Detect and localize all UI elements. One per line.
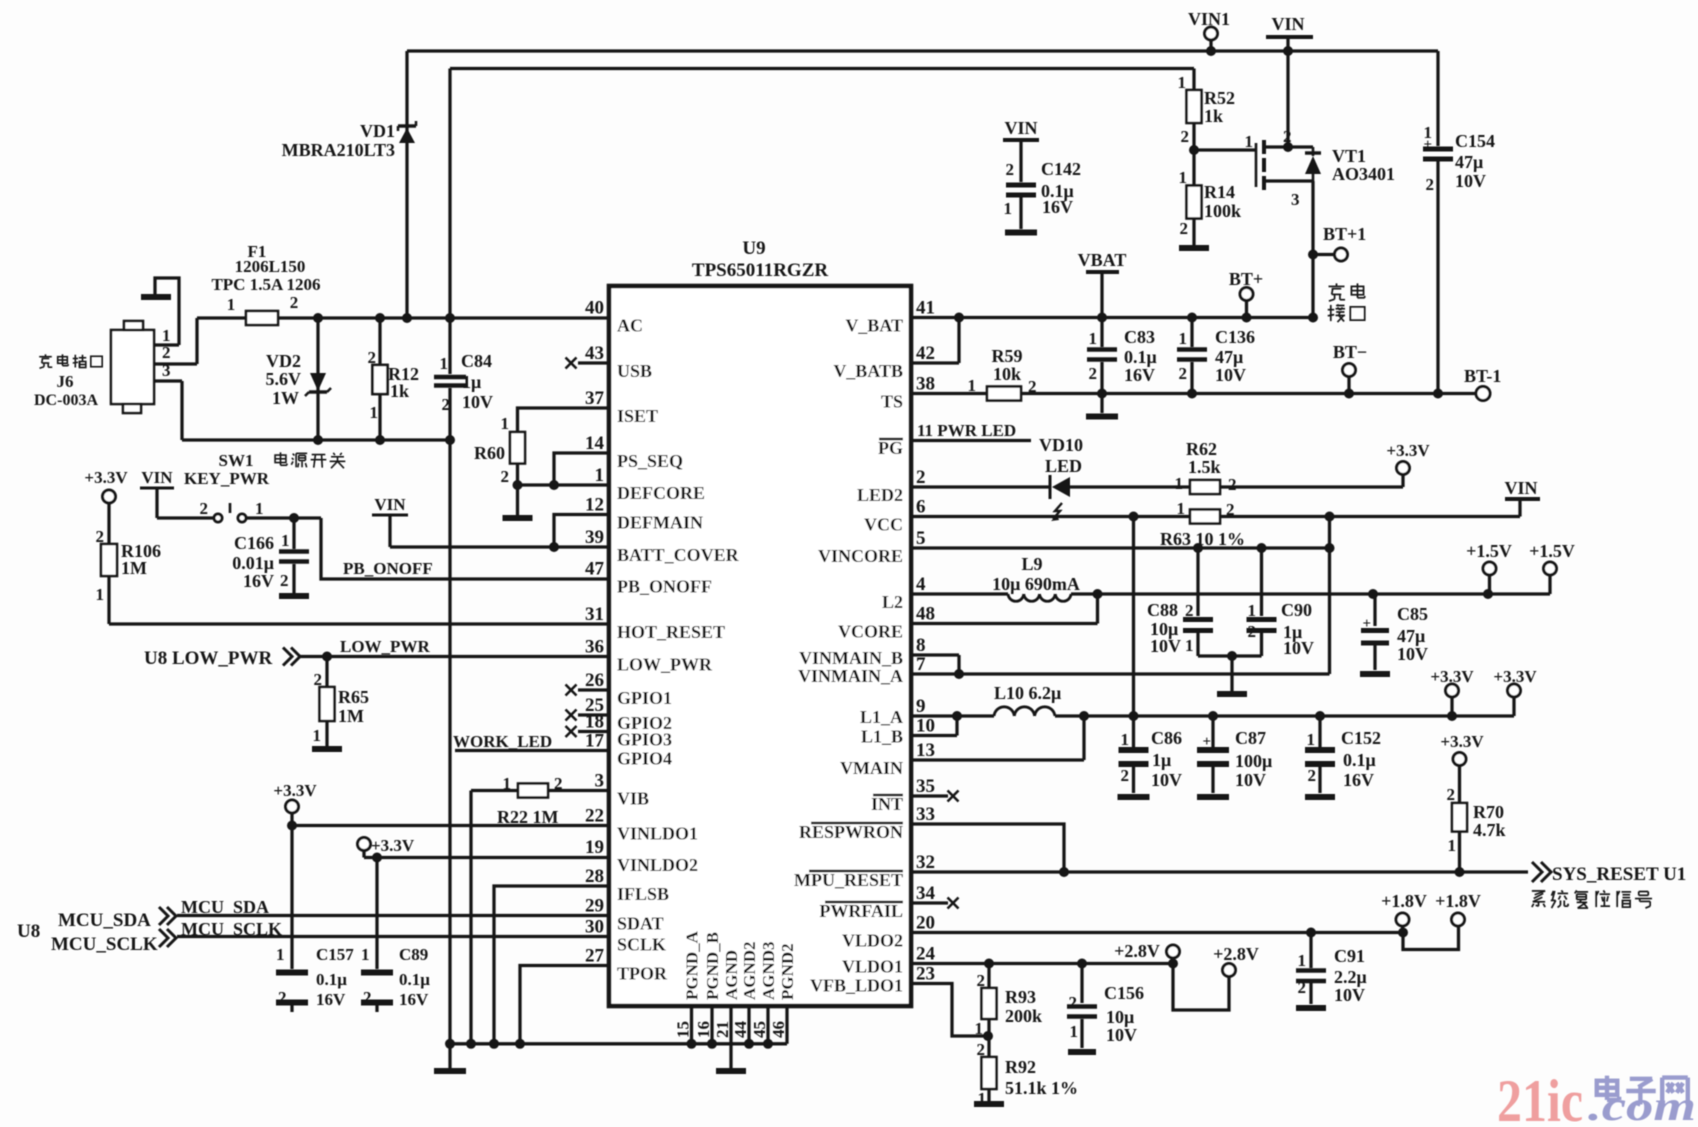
svg-text:20: 20 bbox=[916, 913, 935, 934]
svg-text:VIN: VIN bbox=[1271, 14, 1304, 34]
svg-text:1: 1 bbox=[1448, 836, 1457, 855]
svg-text:1: 1 bbox=[1178, 73, 1187, 92]
svg-text:10V: 10V bbox=[1215, 365, 1246, 385]
svg-text:1μ: 1μ bbox=[462, 372, 481, 392]
svg-text:1: 1 bbox=[595, 465, 605, 486]
svg-text:PB_ONOFF: PB_ONOFF bbox=[617, 577, 712, 597]
svg-text:16V: 16V bbox=[1042, 197, 1073, 217]
svg-text:1: 1 bbox=[501, 414, 510, 433]
svg-text:2: 2 bbox=[1069, 993, 1078, 1012]
svg-text:2: 2 bbox=[916, 467, 926, 488]
svg-text:1: 1 bbox=[1121, 730, 1130, 749]
svg-text:10V: 10V bbox=[1334, 985, 1365, 1005]
svg-text:SYS_RESET U1: SYS_RESET U1 bbox=[1552, 864, 1686, 885]
svg-text:2: 2 bbox=[200, 499, 209, 518]
svg-text:ISET: ISET bbox=[617, 406, 658, 426]
svg-text:4: 4 bbox=[916, 574, 926, 595]
svg-text:3: 3 bbox=[162, 361, 171, 380]
svg-text:1: 1 bbox=[1004, 199, 1013, 218]
svg-text:AGND3: AGND3 bbox=[759, 941, 778, 1000]
svg-text:1: 1 bbox=[255, 499, 264, 518]
svg-text:0.1μ: 0.1μ bbox=[1124, 347, 1157, 367]
svg-text:MCU_SDA: MCU_SDA bbox=[181, 897, 269, 917]
svg-text:LED2: LED2 bbox=[857, 485, 903, 505]
svg-text:C84: C84 bbox=[461, 351, 492, 371]
svg-text:BATT_COVER: BATT_COVER bbox=[617, 545, 740, 565]
svg-text:VINLDO2: VINLDO2 bbox=[617, 855, 698, 875]
svg-text:SW1: SW1 bbox=[219, 451, 254, 470]
svg-text:26: 26 bbox=[585, 670, 604, 691]
svg-text:.com: .com bbox=[1588, 1084, 1696, 1122]
svg-text:2: 2 bbox=[162, 343, 171, 362]
svg-text:2: 2 bbox=[280, 571, 289, 590]
svg-text:43: 43 bbox=[585, 343, 604, 364]
svg-text:HOT_RESET: HOT_RESET bbox=[617, 622, 725, 642]
svg-text:10V: 10V bbox=[1106, 1025, 1137, 1045]
svg-text:47μ: 47μ bbox=[1215, 347, 1243, 367]
svg-text:8: 8 bbox=[916, 635, 926, 656]
svg-text:21ic: 21ic bbox=[1497, 1068, 1583, 1122]
svg-text:2: 2 bbox=[1028, 377, 1037, 396]
svg-text:+3.3V: +3.3V bbox=[1430, 667, 1474, 686]
svg-text:PGND_A: PGND_A bbox=[683, 930, 702, 1000]
svg-text:AO3401: AO3401 bbox=[1332, 164, 1395, 184]
svg-text:47μ: 47μ bbox=[1455, 152, 1483, 172]
svg-text:R62: R62 bbox=[1186, 439, 1217, 459]
svg-text:44: 44 bbox=[731, 1021, 750, 1039]
svg-text:C157: C157 bbox=[316, 945, 354, 964]
svg-text:1: 1 bbox=[1089, 329, 1098, 348]
svg-text:1W: 1W bbox=[272, 388, 299, 408]
svg-text:MPU_RESET: MPU_RESET bbox=[794, 870, 903, 890]
svg-text:45: 45 bbox=[750, 1021, 769, 1038]
svg-text:6: 6 bbox=[916, 497, 926, 518]
svg-text:1: 1 bbox=[1179, 168, 1188, 187]
svg-text:U8: U8 bbox=[17, 921, 40, 942]
svg-text:VINMAIN_B: VINMAIN_B bbox=[799, 648, 903, 668]
svg-text:47: 47 bbox=[585, 559, 605, 580]
svg-text:+1.8V: +1.8V bbox=[1435, 891, 1481, 911]
svg-text:3: 3 bbox=[1291, 190, 1300, 209]
svg-text:2: 2 bbox=[290, 293, 299, 312]
svg-text:1: 1 bbox=[975, 1019, 984, 1038]
svg-text:DEFCORE: DEFCORE bbox=[617, 483, 705, 503]
svg-text:34: 34 bbox=[916, 883, 936, 904]
svg-text:L9: L9 bbox=[1021, 554, 1042, 574]
svg-text:C85: C85 bbox=[1397, 604, 1428, 624]
svg-text:1: 1 bbox=[1298, 951, 1307, 970]
svg-text:LOW_PWR: LOW_PWR bbox=[617, 655, 713, 675]
svg-text:WORK_LED: WORK_LED bbox=[453, 732, 552, 751]
svg-text:VT1: VT1 bbox=[1332, 146, 1366, 166]
svg-text:1: 1 bbox=[1245, 132, 1254, 151]
svg-text:L10 6.2μ: L10 6.2μ bbox=[994, 683, 1061, 703]
svg-text:SCLK: SCLK bbox=[617, 935, 666, 955]
svg-text:19: 19 bbox=[585, 837, 604, 858]
svg-text:1: 1 bbox=[370, 403, 379, 422]
svg-text:1: 1 bbox=[1248, 601, 1257, 620]
svg-text:PWRFAIL: PWRFAIL bbox=[819, 901, 903, 921]
svg-text:10V: 10V bbox=[1455, 171, 1486, 191]
svg-text:R59: R59 bbox=[992, 346, 1023, 366]
svg-text:2: 2 bbox=[1228, 475, 1237, 494]
svg-text:R60: R60 bbox=[474, 443, 505, 463]
svg-text:1: 1 bbox=[1179, 329, 1188, 348]
svg-text:16V: 16V bbox=[1124, 365, 1155, 385]
svg-text:1M: 1M bbox=[121, 558, 147, 578]
svg-text:33: 33 bbox=[916, 804, 935, 825]
svg-text:BT−: BT− bbox=[1333, 342, 1367, 362]
svg-text:30: 30 bbox=[585, 917, 604, 938]
svg-text:1: 1 bbox=[968, 376, 977, 395]
svg-text:16V: 16V bbox=[399, 990, 429, 1009]
svg-text:VBAT: VBAT bbox=[1078, 250, 1127, 270]
svg-text:U9: U9 bbox=[742, 238, 765, 259]
svg-text:GPIO3: GPIO3 bbox=[617, 730, 672, 750]
svg-text:2: 2 bbox=[368, 348, 377, 367]
svg-text:10V: 10V bbox=[1283, 638, 1314, 658]
svg-text:5: 5 bbox=[916, 528, 926, 549]
svg-text:+3.3V: +3.3V bbox=[1440, 732, 1484, 751]
svg-text:VCC: VCC bbox=[864, 515, 903, 535]
svg-text:29: 29 bbox=[585, 896, 604, 917]
svg-text:12: 12 bbox=[585, 495, 604, 516]
svg-text:21: 21 bbox=[713, 1021, 732, 1038]
svg-text:AC: AC bbox=[617, 316, 643, 336]
svg-text:BT+1: BT+1 bbox=[1323, 224, 1366, 244]
svg-text:IFLSB: IFLSB bbox=[617, 884, 669, 904]
svg-text:14: 14 bbox=[585, 433, 605, 454]
svg-text:2: 2 bbox=[1121, 766, 1130, 785]
svg-text:39: 39 bbox=[585, 527, 604, 548]
svg-text:10V: 10V bbox=[1151, 770, 1182, 790]
svg-text:36: 36 bbox=[585, 637, 604, 658]
svg-text:24: 24 bbox=[916, 944, 936, 965]
svg-text:RESPWRON: RESPWRON bbox=[799, 822, 903, 842]
svg-text:L1_B: L1_B bbox=[861, 727, 903, 747]
svg-text:2: 2 bbox=[1181, 127, 1190, 146]
svg-text:1: 1 bbox=[227, 295, 236, 314]
svg-text:1k: 1k bbox=[1204, 106, 1223, 126]
svg-text:1k: 1k bbox=[390, 381, 409, 401]
svg-text:USB: USB bbox=[617, 361, 652, 381]
svg-text:C88: C88 bbox=[1147, 600, 1178, 620]
svg-text:16V: 16V bbox=[316, 990, 346, 1009]
svg-text:GPIO1: GPIO1 bbox=[617, 688, 672, 708]
svg-text:16V: 16V bbox=[1343, 770, 1374, 790]
svg-text:R14: R14 bbox=[1204, 182, 1235, 202]
svg-text:41: 41 bbox=[916, 298, 935, 319]
svg-text:DEFMAIN: DEFMAIN bbox=[617, 513, 703, 533]
svg-text:0.01μ: 0.01μ bbox=[232, 553, 274, 573]
svg-text:2: 2 bbox=[1006, 160, 1015, 179]
svg-text:2: 2 bbox=[1248, 622, 1257, 641]
svg-text:VIN: VIN bbox=[374, 495, 406, 514]
svg-text:VCORE: VCORE bbox=[838, 622, 903, 642]
svg-text:VLDO1: VLDO1 bbox=[842, 957, 903, 977]
svg-text:2: 2 bbox=[442, 395, 451, 414]
svg-text:28: 28 bbox=[585, 866, 604, 887]
svg-text:1.5k: 1.5k bbox=[1188, 457, 1221, 477]
svg-text:TPS65011RGZR: TPS65011RGZR bbox=[692, 260, 828, 281]
svg-text:C156: C156 bbox=[1104, 983, 1144, 1003]
svg-text:7: 7 bbox=[916, 654, 926, 675]
svg-text:2: 2 bbox=[501, 467, 510, 486]
svg-text:VINLDO1: VINLDO1 bbox=[617, 824, 698, 844]
svg-text:DC-003A: DC-003A bbox=[34, 392, 98, 409]
svg-text:R70: R70 bbox=[1473, 802, 1504, 822]
svg-text:1: 1 bbox=[361, 945, 370, 964]
svg-text:+1.8V: +1.8V bbox=[1381, 891, 1427, 911]
svg-text:16: 16 bbox=[694, 1021, 713, 1038]
svg-text:VD1: VD1 bbox=[360, 121, 395, 141]
svg-text:17: 17 bbox=[585, 731, 605, 752]
svg-text:PS_SEQ: PS_SEQ bbox=[617, 451, 683, 471]
svg-text:13: 13 bbox=[916, 740, 935, 761]
svg-text:BT+: BT+ bbox=[1229, 269, 1263, 289]
svg-text:+2.8V: +2.8V bbox=[1213, 944, 1259, 964]
svg-text:100k: 100k bbox=[1204, 201, 1241, 221]
svg-text:15: 15 bbox=[674, 1021, 693, 1038]
svg-text:2: 2 bbox=[1185, 601, 1194, 620]
svg-text:VD2: VD2 bbox=[266, 351, 301, 371]
svg-text:2.2μ: 2.2μ bbox=[1334, 967, 1367, 987]
svg-text:VIB: VIB bbox=[617, 789, 649, 809]
svg-text:16V: 16V bbox=[243, 571, 274, 591]
svg-text:2: 2 bbox=[1426, 175, 1435, 194]
svg-text:23: 23 bbox=[916, 964, 935, 985]
svg-text:L1_A: L1_A bbox=[860, 707, 903, 727]
svg-text:C91: C91 bbox=[1334, 946, 1365, 966]
svg-text:TS: TS bbox=[881, 392, 903, 412]
svg-text:R52: R52 bbox=[1204, 88, 1235, 108]
svg-text:U8 LOW_PWR: U8 LOW_PWR bbox=[144, 648, 273, 669]
svg-text:1: 1 bbox=[503, 774, 512, 793]
svg-text:46: 46 bbox=[769, 1021, 788, 1038]
svg-text:J6: J6 bbox=[57, 372, 74, 391]
svg-text:INT: INT bbox=[871, 794, 903, 814]
svg-text:2: 2 bbox=[554, 774, 563, 793]
svg-text:KEY_PWR: KEY_PWR bbox=[184, 469, 270, 488]
svg-text:LOW_PWR: LOW_PWR bbox=[340, 637, 430, 656]
svg-text:R65: R65 bbox=[338, 687, 369, 707]
svg-text:3: 3 bbox=[595, 771, 605, 792]
svg-text:PB_ONOFF: PB_ONOFF bbox=[343, 559, 433, 578]
svg-text:1: 1 bbox=[276, 945, 285, 964]
svg-text:1: 1 bbox=[313, 726, 322, 745]
svg-text:+: + bbox=[1423, 137, 1432, 153]
svg-text:VIN: VIN bbox=[1504, 478, 1537, 498]
svg-text:27: 27 bbox=[585, 946, 605, 967]
svg-text:PGND2: PGND2 bbox=[778, 943, 797, 1000]
svg-text:2: 2 bbox=[1298, 978, 1307, 997]
svg-text:200k: 200k bbox=[1005, 1006, 1042, 1026]
svg-text:2: 2 bbox=[278, 988, 287, 1007]
svg-text:+1.5V: +1.5V bbox=[1466, 541, 1512, 561]
svg-text:VIN: VIN bbox=[141, 468, 173, 487]
svg-text:V_BATB: V_BATB bbox=[833, 361, 903, 381]
svg-text:1: 1 bbox=[440, 354, 449, 373]
svg-text:2: 2 bbox=[1089, 364, 1098, 383]
svg-text:LED: LED bbox=[1045, 456, 1082, 476]
svg-text:4.7k: 4.7k bbox=[1473, 820, 1506, 840]
svg-text:VINMAIN_A: VINMAIN_A bbox=[798, 666, 903, 686]
svg-text:C154: C154 bbox=[1455, 131, 1495, 151]
svg-text:SDAT: SDAT bbox=[617, 914, 664, 934]
svg-text:1μ: 1μ bbox=[1152, 750, 1171, 770]
svg-text:AGND: AGND bbox=[722, 950, 741, 1000]
svg-text:11 PWR LED: 11 PWR LED bbox=[917, 421, 1016, 440]
svg-text:MCU_SCLK: MCU_SCLK bbox=[51, 934, 158, 955]
svg-text:V_BAT: V_BAT bbox=[845, 316, 903, 336]
svg-text:+3.3V: +3.3V bbox=[84, 468, 128, 487]
svg-text:10V: 10V bbox=[1397, 644, 1428, 664]
svg-text:1: 1 bbox=[1070, 1022, 1079, 1041]
svg-text:100μ: 100μ bbox=[1235, 751, 1272, 771]
svg-text:AGND2: AGND2 bbox=[740, 941, 759, 1000]
svg-text:40: 40 bbox=[585, 298, 604, 319]
svg-text:VFB_LDO1: VFB_LDO1 bbox=[810, 976, 903, 996]
svg-text:37: 37 bbox=[585, 388, 605, 409]
svg-text:35: 35 bbox=[916, 776, 935, 797]
svg-text:10μ: 10μ bbox=[1106, 1007, 1134, 1027]
svg-text:51.1k 1%: 51.1k 1% bbox=[1005, 1078, 1078, 1098]
svg-text:1: 1 bbox=[96, 585, 105, 604]
svg-text:R93: R93 bbox=[1005, 987, 1036, 1007]
svg-text:1M: 1M bbox=[338, 706, 364, 726]
svg-text:1: 1 bbox=[1307, 730, 1316, 749]
svg-text:C87: C87 bbox=[1235, 728, 1266, 748]
svg-text:C86: C86 bbox=[1151, 728, 1182, 748]
svg-text:48: 48 bbox=[916, 604, 935, 625]
svg-text:VIN: VIN bbox=[1004, 118, 1037, 138]
svg-text:C166: C166 bbox=[234, 533, 274, 553]
svg-text:2: 2 bbox=[1447, 785, 1456, 804]
svg-text:TPOR: TPOR bbox=[617, 964, 668, 984]
svg-text:VD10: VD10 bbox=[1039, 435, 1083, 455]
svg-text:+2.8V: +2.8V bbox=[1114, 941, 1160, 961]
svg-text:5.6V: 5.6V bbox=[266, 369, 302, 389]
svg-text:10V: 10V bbox=[1235, 770, 1266, 790]
svg-text:10μ 690mA: 10μ 690mA bbox=[992, 574, 1080, 594]
svg-text:GPIO4: GPIO4 bbox=[617, 749, 672, 769]
svg-text:VIN1: VIN1 bbox=[1188, 9, 1230, 29]
svg-text:1: 1 bbox=[1185, 636, 1194, 655]
svg-text:2: 2 bbox=[1226, 500, 1235, 519]
svg-text:+3.3V: +3.3V bbox=[371, 836, 415, 855]
svg-text:PGND_B: PGND_B bbox=[703, 932, 722, 1000]
svg-text:32: 32 bbox=[916, 852, 935, 873]
svg-text:C142: C142 bbox=[1041, 159, 1081, 179]
svg-text:C136: C136 bbox=[1215, 327, 1255, 347]
svg-text:2: 2 bbox=[1308, 766, 1317, 785]
svg-text:10V: 10V bbox=[462, 392, 493, 412]
svg-text:0.1μ: 0.1μ bbox=[399, 970, 430, 989]
svg-text:2: 2 bbox=[1283, 127, 1292, 146]
svg-text:10k: 10k bbox=[993, 364, 1021, 384]
svg-text:1206L150: 1206L150 bbox=[235, 257, 306, 276]
svg-text:10V: 10V bbox=[1150, 636, 1181, 656]
svg-text:R92: R92 bbox=[1005, 1057, 1036, 1077]
svg-text:0.1μ: 0.1μ bbox=[1343, 750, 1376, 770]
svg-text:22: 22 bbox=[585, 806, 604, 827]
svg-text:1: 1 bbox=[1175, 474, 1184, 493]
svg-text:10: 10 bbox=[916, 716, 935, 737]
svg-text:1: 1 bbox=[281, 531, 290, 550]
svg-text:C90: C90 bbox=[1281, 600, 1312, 620]
svg-text:0.1μ: 0.1μ bbox=[316, 970, 347, 989]
svg-text:MCU_SCLK: MCU_SCLK bbox=[181, 919, 282, 939]
svg-text:+3.3V: +3.3V bbox=[273, 781, 317, 800]
svg-text:BT-1: BT-1 bbox=[1464, 366, 1501, 386]
svg-text:L2: L2 bbox=[882, 592, 903, 612]
svg-text:9: 9 bbox=[916, 696, 926, 717]
svg-text:+1.5V: +1.5V bbox=[1529, 541, 1575, 561]
svg-text:PG: PG bbox=[878, 438, 903, 458]
svg-text:2: 2 bbox=[363, 988, 372, 1007]
svg-text:C83: C83 bbox=[1124, 327, 1155, 347]
svg-text:VMAIN: VMAIN bbox=[840, 758, 903, 778]
svg-text:C152: C152 bbox=[1341, 728, 1381, 748]
svg-text:MBRA210LT3: MBRA210LT3 bbox=[282, 140, 395, 160]
svg-text:1: 1 bbox=[1177, 499, 1186, 518]
svg-text:31: 31 bbox=[585, 604, 604, 625]
svg-text:47μ: 47μ bbox=[1397, 626, 1425, 646]
svg-text:C89: C89 bbox=[399, 945, 428, 964]
svg-text:+3.3V: +3.3V bbox=[1386, 441, 1430, 460]
svg-text:2: 2 bbox=[1179, 364, 1188, 383]
svg-text:TPC 1.5A 1206: TPC 1.5A 1206 bbox=[211, 275, 320, 294]
svg-text:+3.3V: +3.3V bbox=[1493, 667, 1537, 686]
svg-text:MCU_SDA: MCU_SDA bbox=[58, 910, 151, 931]
svg-text:42: 42 bbox=[916, 343, 935, 364]
svg-text:VINCORE: VINCORE bbox=[818, 546, 903, 566]
svg-text:2: 2 bbox=[1180, 219, 1189, 238]
svg-text:38: 38 bbox=[916, 374, 935, 395]
svg-text:VLDO2: VLDO2 bbox=[842, 931, 903, 951]
